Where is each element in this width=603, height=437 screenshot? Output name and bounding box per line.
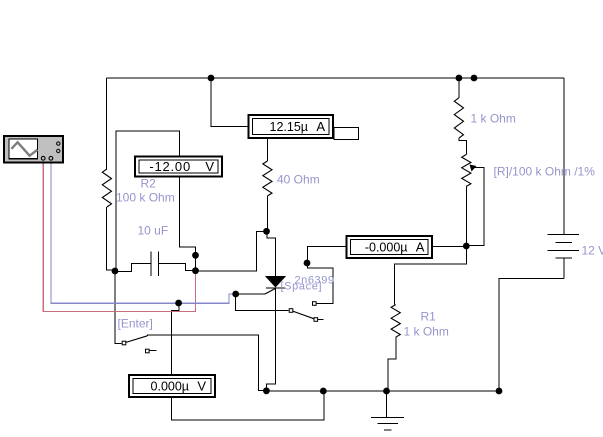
- svg-text:-0.000µ: -0.000µ: [365, 240, 408, 254]
- svg-text:A: A: [316, 119, 325, 134]
- svg-text:100 k Ohm: 100 k Ohm: [116, 190, 175, 204]
- svg-text:12.15µ: 12.15µ: [270, 120, 308, 134]
- svg-text:1 k Ohm: 1 k Ohm: [471, 111, 516, 125]
- svg-text:A: A: [416, 239, 425, 254]
- svg-text:10 uF: 10 uF: [138, 223, 169, 237]
- svg-text:1 k Ohm: 1 k Ohm: [404, 325, 449, 339]
- svg-text:[Enter]: [Enter]: [118, 317, 153, 331]
- svg-text:V: V: [205, 159, 214, 174]
- svg-text:0.000µ: 0.000µ: [151, 379, 189, 393]
- svg-text:-12.00: -12.00: [149, 159, 191, 174]
- svg-text:[Space]: [Space]: [281, 281, 322, 293]
- svg-text:R2: R2: [141, 177, 157, 191]
- svg-text:V: V: [197, 378, 206, 393]
- svg-text:[R]/100 k Ohm /1%: [R]/100 k Ohm /1%: [494, 165, 596, 179]
- svg-text:12 V: 12 V: [582, 243, 603, 257]
- svg-text:40 Ohm: 40 Ohm: [277, 172, 320, 186]
- svg-text:R1: R1: [421, 309, 437, 323]
